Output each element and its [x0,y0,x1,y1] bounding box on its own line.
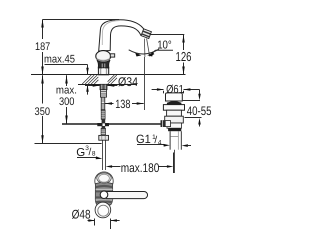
label max.45 [44,53,75,65]
G1 1/4 leader [137,144,191,147]
label 40-55 [187,104,212,118]
supply nut [99,135,109,140]
deck bottom line [78,84,137,86]
label O61 [166,83,184,96]
10 degree arc arrow [129,49,159,56]
350 bottom extension [35,143,102,145]
label 10deg [149,40,173,57]
shank threaded [100,84,107,97]
stem threaded [101,97,105,110]
body base [98,68,108,75]
dome-band extension [182,100,200,102]
svg-text:max.: max. [56,85,77,97]
label 138 [115,97,130,111]
svg-text:187: 187 [35,41,50,53]
stream extension line [144,57,146,110]
pop-up neck [167,110,182,116]
dimension 40-55 [198,90,201,127]
pop-up tailpipe [170,131,181,150]
pop-up knob cap [166,93,183,101]
handle lever spur [110,54,114,57]
deck top line [31,74,186,76]
body waist [97,60,110,68]
svg-text:max.180: max.180 [121,161,160,175]
dimension O48 [88,219,120,230]
svg-text:126: 126 [176,49,192,64]
svg-text:Ø61: Ø61 [166,83,184,96]
top view joint hole [100,191,108,199]
top view spout bar [106,192,148,199]
G3/8 leader [77,156,102,159]
supply tail threaded [101,128,105,135]
svg-text:40-55: 40-55 [187,104,212,118]
nut-bottom extension [185,117,202,119]
tail center ext [174,150,176,173]
pop-up nut [165,116,184,131]
label max300 [56,85,77,108]
top view body [95,172,113,218]
svg-text:350: 350 [35,106,51,118]
label 126 [176,49,192,64]
max45 leader [45,65,89,95]
dimension max180 [106,153,174,174]
dimension 126 [182,34,185,75]
pop-up dark band [167,101,182,104]
label 187 [35,41,50,53]
svg-text:Ø34: Ø34 [118,75,138,89]
svg-text:max.45: max.45 [44,53,75,65]
aerator extension line [150,34,185,36]
pop-up waste: dim ext lines [164,91,184,94]
svg-text:138: 138 [115,97,130,111]
aerator [141,29,151,39]
label max180 [121,161,160,175]
dimension O34 [85,84,117,87]
pop-up flange [163,105,184,111]
dimension max300 [65,75,68,124]
label 350 [35,106,51,118]
supply tube upper [101,110,105,119]
deck hatch [82,75,117,84]
label G1 1/4 [136,132,162,147]
water stream [144,39,149,57]
pop-up lever block [161,120,171,127]
svg-text:Ø48: Ø48 [72,207,91,221]
label O34 [118,75,138,89]
label O48 [72,207,91,221]
dimension 350 vertical [41,75,44,143]
supply tube lower [102,140,105,170]
svg-text:300: 300 [59,96,75,108]
dimension 138 [105,102,144,105]
dimension 187 vertical [41,19,44,75]
handle ball [96,51,111,62]
rod swivel node [97,119,109,130]
label G3/8 [76,145,96,159]
pop-up rod [62,123,161,125]
svg-text:8: 8 [92,151,96,158]
svg-text:4: 4 [158,140,162,147]
spout arc [99,20,147,51]
dimension O61 [152,88,200,91]
apex extension line [43,19,120,21]
